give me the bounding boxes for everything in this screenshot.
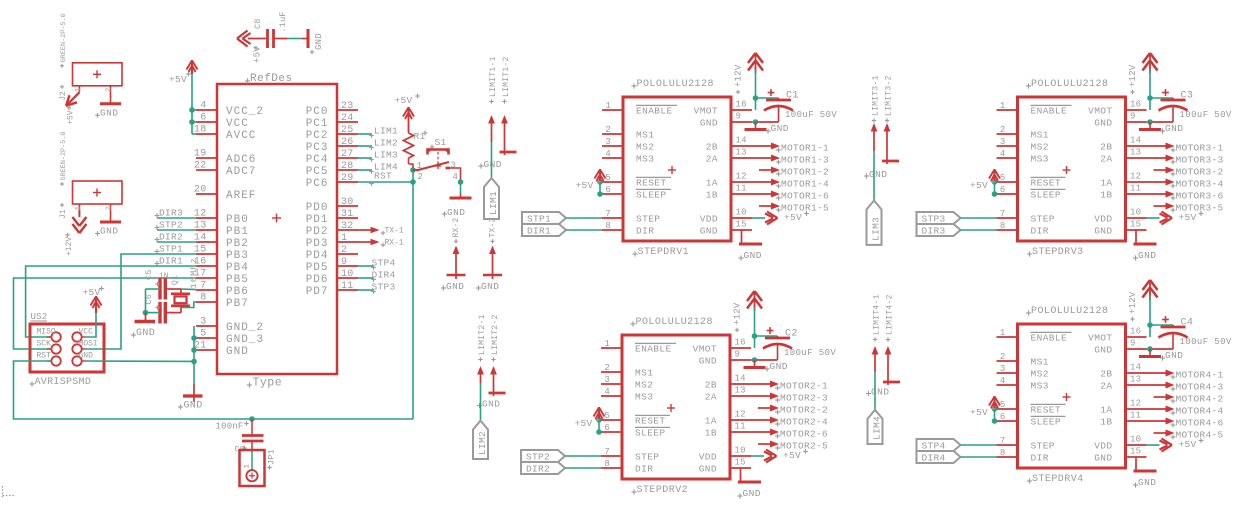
svg-text:12: 12 (1130, 172, 1141, 182)
svg-text:PB7: PB7 (226, 298, 249, 310)
svg-text:4: 4 (604, 387, 610, 397)
svg-text:ENABLE: ENABLE (635, 344, 672, 355)
svg-text:MOTOR3-3: MOTOR3-3 (1176, 154, 1224, 165)
svg-text:+5V: +5V (970, 407, 988, 418)
svg-text:ENABLE: ENABLE (1031, 106, 1068, 117)
svg-text:1A: 1A (706, 178, 718, 189)
svg-text:+12V: +12V (65, 237, 74, 256)
svg-text:DIR3: DIR3 (922, 226, 946, 237)
svg-text:GND: GND (700, 226, 718, 237)
svg-text:1: 1 (604, 339, 610, 349)
svg-text:MS1: MS1 (636, 130, 654, 141)
svg-text:1: 1 (341, 233, 347, 244)
svg-text:7: 7 (605, 209, 611, 219)
svg-text:1B: 1B (705, 428, 717, 439)
svg-text:MS3: MS3 (636, 154, 654, 165)
svg-text:3: 3 (604, 375, 610, 385)
svg-text:+12V: +12V (734, 64, 744, 87)
svg-text:PD4: PD4 (306, 250, 329, 262)
svg-text:2B: 2B (705, 380, 717, 391)
svg-text:GND: GND (446, 281, 464, 292)
svg-text:28: 28 (341, 161, 354, 172)
svg-text:GND: GND (770, 361, 788, 372)
svg-text:100uF 50V: 100uF 50V (784, 348, 836, 358)
svg-text:PB1: PB1 (226, 226, 249, 238)
svg-text:MS1: MS1 (1031, 357, 1049, 368)
svg-text:7: 7 (200, 281, 206, 292)
svg-text:C8: C8 (253, 18, 263, 29)
svg-text:GND: GND (871, 387, 889, 398)
svg-text:MOTOR2-1: MOTOR2-1 (780, 380, 828, 391)
svg-text:VCC: VCC (226, 118, 249, 130)
svg-text:GND: GND (136, 328, 155, 339)
svg-text:PC2: PC2 (306, 130, 329, 142)
svg-text:9: 9 (736, 112, 742, 122)
svg-text:Type: Type (253, 377, 283, 390)
svg-text:POLOLULU2128: POLOLULU2128 (1031, 306, 1108, 317)
svg-text:PD7: PD7 (306, 286, 329, 298)
svg-text:27: 27 (341, 149, 354, 160)
svg-text:PC3: PC3 (306, 142, 329, 154)
svg-text:1A: 1A (1100, 405, 1112, 416)
svg-text:RESET: RESET (1031, 178, 1062, 189)
svg-text:MOTOR3-2: MOTOR3-2 (1176, 166, 1224, 177)
svg-text:MOTOR2-3: MOTOR2-3 (780, 392, 828, 403)
svg-text:PB2: PB2 (226, 238, 249, 250)
svg-text:LIM3: LIM3 (871, 217, 882, 241)
svg-text:DIR3: DIR3 (159, 208, 183, 219)
svg-text:19: 19 (194, 149, 207, 160)
svg-text:GND: GND (869, 169, 887, 180)
svg-text:VDD: VDD (699, 452, 717, 463)
svg-text:MOTOR4-6: MOTOR4-6 (1176, 417, 1224, 428)
svg-text:10: 10 (341, 269, 354, 280)
svg-text:STEP: STEP (1031, 441, 1055, 452)
svg-text:100uF 50V: 100uF 50V (1180, 110, 1232, 120)
svg-text:6: 6 (200, 113, 206, 124)
svg-text:2A: 2A (706, 154, 718, 165)
svg-text:TX-1: TX-1 (385, 227, 404, 236)
svg-text:DIR: DIR (1031, 453, 1049, 464)
svg-text:15: 15 (735, 458, 746, 468)
svg-text:+5V: +5V (970, 180, 988, 191)
svg-text:MS2: MS2 (1031, 142, 1049, 153)
svg-text:4: 4 (200, 101, 206, 112)
svg-text:15: 15 (736, 220, 747, 230)
svg-text:6: 6 (605, 185, 611, 195)
svg-text:GND: GND (314, 33, 324, 50)
svg-text:GND: GND (699, 464, 717, 475)
svg-text:LIM3: LIM3 (374, 150, 398, 161)
svg-text:13: 13 (736, 148, 747, 158)
svg-text:MOTOR4-3: MOTOR4-3 (1176, 381, 1224, 392)
svg-text:DIR: DIR (635, 464, 653, 475)
svg-text:2: 2 (106, 206, 114, 211)
svg-text:MOTOR4-2: MOTOR4-2 (1176, 393, 1224, 404)
svg-text:+5V: +5V (395, 95, 413, 106)
svg-text:+5V: +5V (783, 450, 801, 461)
svg-text:STP2: STP2 (526, 452, 550, 463)
svg-text:1A: 1A (705, 416, 717, 427)
svg-text:MOSI: MOSI (79, 340, 98, 349)
svg-text:GND: GND (184, 401, 203, 412)
svg-text:GREEN-2P-5.0: GREEN-2P-5.0 (60, 13, 68, 62)
svg-text:GND: GND (484, 159, 502, 170)
svg-text:VMOT: VMOT (1088, 333, 1112, 344)
svg-text:DIR: DIR (636, 226, 654, 237)
svg-text:RESET: RESET (1031, 405, 1062, 416)
svg-text:12: 12 (735, 410, 746, 420)
svg-text:STP3: STP3 (372, 281, 396, 292)
svg-text:GND: GND (1094, 345, 1112, 356)
svg-text:12: 12 (1130, 399, 1141, 409)
svg-text:Q1: Q1 (171, 275, 180, 285)
svg-text:MS3: MS3 (635, 392, 653, 403)
svg-text:2A: 2A (1100, 154, 1112, 165)
svg-text:14: 14 (1130, 363, 1141, 373)
svg-text:PB5: PB5 (226, 274, 249, 286)
svg-text:GND: GND (100, 226, 118, 237)
svg-text:VCC_2: VCC_2 (226, 106, 264, 118)
svg-text:1: 1 (244, 464, 252, 469)
svg-text:GND: GND (1165, 350, 1183, 361)
svg-text:PC5: PC5 (306, 166, 329, 178)
svg-text:GND: GND (1094, 226, 1112, 237)
svg-text:6: 6 (1000, 412, 1006, 422)
svg-text:13: 13 (735, 386, 746, 396)
svg-text:4: 4 (605, 149, 611, 159)
svg-text:2: 2 (418, 172, 423, 182)
svg-text:+5V: +5V (1179, 212, 1197, 223)
svg-text:2B: 2B (1100, 142, 1112, 153)
svg-text:14: 14 (736, 136, 747, 146)
svg-text:1N: 1N (159, 273, 168, 281)
svg-text:STP3: STP3 (922, 214, 946, 225)
svg-text:AREF: AREF (226, 190, 256, 202)
svg-text:GND_2: GND_2 (226, 322, 264, 334)
svg-text:1: 1 (1000, 328, 1006, 338)
svg-text:7: 7 (604, 447, 610, 457)
svg-text:+5V: +5V (82, 287, 100, 298)
svg-text:1: 1 (417, 161, 422, 171)
svg-text:MS2: MS2 (635, 380, 653, 391)
svg-text:JP1: JP1 (267, 449, 277, 465)
svg-text:PC1: PC1 (306, 118, 329, 130)
svg-text:10: 10 (1130, 435, 1141, 445)
svg-text:ENABLE: ENABLE (636, 106, 673, 117)
svg-text:POLOLULU2128: POLOLULU2128 (637, 79, 714, 90)
svg-text:GND: GND (1094, 453, 1112, 464)
svg-text:C1: C1 (786, 91, 799, 102)
svg-text:3: 3 (200, 317, 206, 328)
svg-text:8: 8 (1000, 448, 1006, 458)
svg-text:9: 9 (1130, 339, 1136, 349)
svg-text:LIMIT3-2: LIMIT3-2 (885, 75, 894, 116)
svg-text:AVRISPSMD: AVRISPSMD (35, 377, 92, 388)
svg-text:30: 30 (341, 197, 354, 208)
svg-text:6: 6 (604, 423, 610, 433)
svg-text:PD5: PD5 (306, 262, 329, 274)
svg-text:PD6: PD6 (306, 274, 329, 286)
svg-text:+12V: +12V (1128, 64, 1138, 87)
svg-text:11: 11 (341, 281, 354, 292)
svg-text:26: 26 (341, 137, 354, 148)
svg-text:1: 1 (75, 87, 83, 92)
svg-text:1A: 1A (1100, 178, 1112, 189)
svg-text:MS1: MS1 (1031, 130, 1049, 141)
svg-text:LIM2: LIM2 (374, 138, 398, 149)
svg-text:MOTOR1-4: MOTOR1-4 (781, 178, 829, 189)
svg-text:ADC7: ADC7 (226, 166, 256, 178)
svg-text:29: 29 (341, 173, 354, 184)
svg-text:MS3: MS3 (1031, 381, 1049, 392)
svg-text:SLEEP: SLEEP (635, 428, 666, 439)
svg-text:MS2: MS2 (1031, 369, 1049, 380)
svg-text:SLEEP: SLEEP (1031, 417, 1062, 428)
svg-text:VMOT: VMOT (694, 106, 718, 117)
svg-text:32: 32 (341, 221, 354, 232)
svg-text:1B: 1B (706, 190, 718, 201)
svg-text:POLOLULU2128: POLOLULU2128 (1031, 79, 1108, 90)
svg-text:11: 11 (736, 184, 747, 194)
svg-text:DIR4: DIR4 (372, 269, 396, 280)
svg-text:16: 16 (735, 338, 746, 348)
svg-text:100uF 50V: 100uF 50V (785, 110, 837, 120)
svg-text:MOTOR3-1: MOTOR3-1 (1176, 142, 1224, 153)
svg-text:14: 14 (735, 374, 746, 384)
svg-text:PD3: PD3 (306, 238, 329, 250)
svg-text:MOTOR1-2: MOTOR1-2 (781, 166, 829, 177)
svg-text:6: 6 (1000, 185, 1006, 195)
svg-text:MOTOR4-4: MOTOR4-4 (1176, 405, 1224, 416)
svg-text:VDD: VDD (1094, 214, 1112, 225)
svg-text:8: 8 (604, 459, 610, 469)
svg-text:MOTOR3-6: MOTOR3-6 (1176, 190, 1224, 201)
svg-text:1B: 1B (1100, 190, 1112, 201)
svg-text:GND: GND (100, 107, 118, 118)
svg-text:RefDes: RefDes (250, 73, 293, 85)
svg-text:+5V: +5V (169, 74, 187, 85)
svg-text:RESET: RESET (636, 178, 667, 189)
svg-text:LIM1: LIM1 (374, 126, 398, 137)
svg-text:3: 3 (1000, 137, 1006, 147)
svg-text:MOTOR1-3: MOTOR1-3 (781, 154, 829, 165)
svg-text:9: 9 (341, 257, 347, 268)
svg-text:MOTOR4-1: MOTOR4-1 (1176, 369, 1224, 380)
svg-text:+5V: +5V (575, 418, 593, 429)
svg-text:20: 20 (194, 185, 207, 196)
svg-text:RX-1: RX-1 (385, 239, 404, 248)
svg-text:100uF 50V: 100uF 50V (1180, 337, 1232, 347)
svg-text:+5V: +5V (67, 110, 76, 125)
svg-text:MISO: MISO (37, 328, 56, 337)
svg-text:23: 23 (341, 101, 354, 112)
svg-text:10: 10 (1130, 208, 1141, 218)
svg-text:DIR: DIR (1031, 226, 1049, 237)
svg-text:ADC6: ADC6 (226, 154, 256, 166)
svg-text:STEP: STEP (636, 214, 660, 225)
svg-text:LIMIT2-2: LIMIT2-2 (491, 314, 500, 355)
svg-text:10: 10 (736, 208, 747, 218)
svg-text:GND: GND (699, 356, 717, 367)
svg-text:11: 11 (1130, 411, 1141, 421)
svg-text:MS2: MS2 (636, 142, 654, 153)
svg-text:LIM1: LIM1 (488, 191, 499, 215)
svg-text:+12V: +12V (1128, 291, 1138, 314)
svg-text:4: 4 (453, 172, 458, 182)
svg-text:GND: GND (700, 118, 718, 129)
svg-text:PD1: PD1 (306, 214, 329, 226)
svg-text:LIMIT2-1: LIMIT2-1 (478, 314, 487, 355)
svg-text:GND: GND (447, 207, 465, 218)
svg-text:8: 8 (200, 293, 206, 304)
svg-text:.1uF: .1uF (278, 11, 288, 32)
svg-text:16Mhz: 16Mhz (189, 257, 199, 289)
svg-text:7: 7 (1000, 209, 1006, 219)
svg-text:GREEN-2P-5.0: GREEN-2P-5.0 (60, 132, 68, 181)
svg-text:RESET: RESET (635, 416, 666, 427)
svg-text:PB6: PB6 (226, 286, 249, 298)
svg-text:STP1: STP1 (159, 244, 183, 255)
svg-text:1: 1 (605, 101, 611, 111)
svg-text:2: 2 (341, 245, 347, 256)
svg-text:AVCC: AVCC (226, 130, 256, 142)
svg-text:2: 2 (106, 88, 114, 93)
svg-text:SLEEP: SLEEP (636, 190, 667, 201)
svg-text:STEPDRV1: STEPDRV1 (638, 247, 690, 258)
svg-text:STP2: STP2 (159, 220, 183, 231)
svg-text:SLEEP: SLEEP (1031, 190, 1062, 201)
svg-text:31: 31 (341, 209, 354, 220)
svg-text:MOTOR1-1: MOTOR1-1 (781, 142, 829, 153)
svg-text:GND: GND (481, 281, 499, 292)
svg-text:15: 15 (1130, 447, 1141, 457)
svg-text:+12V: +12V (733, 302, 743, 325)
svg-text:STEPDRV4: STEPDRV4 (1032, 474, 1084, 485)
svg-text:3: 3 (451, 161, 456, 171)
svg-text:3: 3 (1000, 364, 1006, 374)
svg-text:PD2: PD2 (306, 226, 329, 238)
svg-text:VDD: VDD (1094, 441, 1112, 452)
svg-text:16: 16 (1130, 100, 1141, 110)
svg-text:PB4: PB4 (226, 262, 249, 274)
svg-text:GND: GND (79, 352, 94, 361)
svg-text:RX-2: RX-2 (452, 217, 461, 237)
svg-text:1: 1 (1000, 101, 1006, 111)
svg-text:LIMIT3-1: LIMIT3-1 (872, 75, 881, 116)
svg-text:GND: GND (1094, 118, 1112, 129)
svg-text:GND: GND (771, 123, 789, 134)
svg-text:GND: GND (743, 488, 761, 499)
svg-text:25: 25 (341, 125, 354, 136)
svg-text:11: 11 (735, 422, 746, 432)
svg-text:MOTOR2-6: MOTOR2-6 (780, 428, 828, 439)
svg-text:13: 13 (1130, 375, 1141, 385)
svg-text:12: 12 (736, 172, 747, 182)
svg-text:MOTOR3-4: MOTOR3-4 (1176, 178, 1224, 189)
svg-text:22: 22 (194, 161, 207, 172)
svg-text:PB3: PB3 (226, 250, 249, 262)
svg-text:11: 11 (1130, 184, 1141, 194)
svg-text:DIR2: DIR2 (526, 464, 550, 475)
svg-text:3: 3 (605, 137, 611, 147)
svg-text:S1: S1 (435, 137, 447, 148)
svg-text:STEP: STEP (635, 452, 659, 463)
svg-text:DIR2: DIR2 (159, 232, 183, 243)
svg-text:7: 7 (1000, 436, 1006, 446)
svg-text:5: 5 (200, 329, 206, 340)
svg-text:MS1: MS1 (635, 368, 653, 379)
svg-text:16: 16 (736, 100, 747, 110)
svg-text:+5V: +5V (1179, 439, 1197, 450)
svg-text:PC4: PC4 (306, 154, 329, 166)
svg-text:RST: RST (37, 352, 52, 361)
svg-text:9: 9 (1130, 112, 1136, 122)
svg-text:GND: GND (226, 346, 249, 358)
svg-text:PC0: PC0 (306, 106, 329, 118)
svg-text:STEPDRV3: STEPDRV3 (1032, 247, 1084, 258)
svg-text:8: 8 (1000, 221, 1006, 231)
svg-text:2: 2 (604, 363, 610, 373)
svg-text:STP4: STP4 (922, 441, 946, 452)
svg-text:STEP: STEP (1031, 214, 1055, 225)
svg-text:GND: GND (744, 250, 762, 261)
svg-text:GND: GND (1165, 123, 1183, 134)
svg-text:9: 9 (735, 350, 741, 360)
svg-text:2B: 2B (1100, 369, 1112, 380)
svg-text:MS3: MS3 (1031, 154, 1049, 165)
svg-text:PC6: PC6 (306, 178, 329, 190)
svg-text:POLOLULU2128: POLOLULU2128 (636, 317, 713, 328)
svg-text:MOTOR2-4: MOTOR2-4 (780, 416, 828, 427)
svg-text:J2: J2 (59, 91, 68, 101)
svg-text:STEPDRV2: STEPDRV2 (637, 485, 689, 496)
svg-text:GND: GND (1138, 477, 1156, 488)
svg-text:LIM2: LIM2 (477, 431, 488, 455)
svg-text:4: 4 (1000, 149, 1006, 159)
svg-text:24: 24 (341, 113, 354, 124)
svg-text:J1: J1 (59, 209, 68, 219)
svg-text:1: 1 (75, 206, 83, 211)
svg-text:8: 8 (605, 221, 611, 231)
svg-text:VDD: VDD (700, 214, 718, 225)
svg-text:100nF: 100nF (216, 422, 244, 432)
svg-text:C4: C4 (1181, 318, 1194, 329)
svg-text:DIR1: DIR1 (159, 256, 183, 267)
svg-text:16: 16 (1130, 327, 1141, 337)
svg-text:DIR1: DIR1 (527, 226, 551, 237)
svg-text:2: 2 (1000, 352, 1006, 362)
svg-text:2A: 2A (1100, 381, 1112, 392)
svg-text:1B: 1B (1100, 417, 1112, 428)
svg-text:ENABLE: ENABLE (1031, 333, 1068, 344)
svg-text:LIM4: LIM4 (872, 416, 883, 440)
svg-text:4: 4 (1000, 376, 1006, 386)
svg-text:RST: RST (374, 171, 392, 182)
svg-text:PB0: PB0 (226, 214, 249, 226)
svg-text:2B: 2B (706, 142, 718, 153)
svg-text:2: 2 (605, 125, 611, 135)
svg-text:C3: C3 (1181, 91, 1194, 102)
svg-text:TX-2: TX-2 (489, 217, 498, 237)
svg-text:VMOT: VMOT (693, 344, 717, 355)
svg-text:PD0: PD0 (306, 202, 329, 214)
svg-text:DIR4: DIR4 (922, 453, 946, 464)
svg-text:GND: GND (482, 399, 500, 410)
svg-text:LIMIT1-1: LIMIT1-1 (489, 56, 498, 97)
svg-text:C5: C5 (144, 269, 154, 280)
svg-text:LIMIT4-1: LIMIT4-1 (873, 294, 882, 335)
